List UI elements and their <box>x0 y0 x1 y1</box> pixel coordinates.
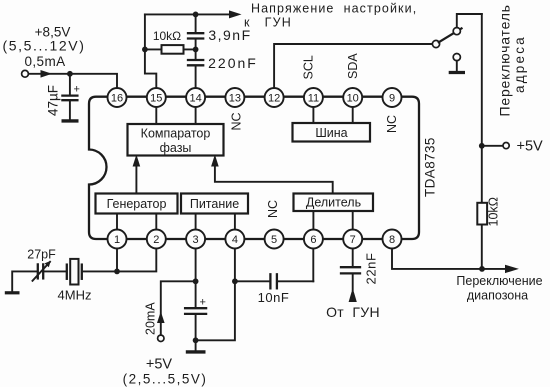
wire divider to comparator with arrow <box>215 163 333 194</box>
svg-text:3,9nF: 3,9nF <box>208 27 251 43</box>
switch S1 address <box>432 28 461 61</box>
svg-text:Делитель: Делитель <box>306 196 361 210</box>
pin 12 <box>265 88 284 107</box>
wire pin1 down <box>116 249 118 271</box>
svg-text:+: + <box>200 297 206 309</box>
wire pin4 down to ground junction <box>196 249 235 340</box>
pin 4 <box>225 230 244 249</box>
resistor R2 10kΩ <box>477 197 500 227</box>
svg-text:2: 2 <box>153 234 159 246</box>
node ground junction <box>193 337 199 343</box>
svg-text:8: 8 <box>389 234 395 246</box>
block comparator (Компаратор фазы) <box>128 124 224 156</box>
svg-text:12: 12 <box>268 93 280 105</box>
svg-text:7: 7 <box>350 234 356 246</box>
node top junction <box>193 12 199 18</box>
pin 2 <box>147 230 166 249</box>
svg-text:4MHz: 4MHz <box>58 288 92 303</box>
wire power to pin3 <box>195 214 197 231</box>
wire generator to pin2 <box>155 214 157 231</box>
svg-text:SDA: SDA <box>346 53 360 79</box>
svg-text:47µF: 47µF <box>46 85 61 116</box>
svg-text:диапозона: диапозона <box>467 289 528 303</box>
capacitor C5 electrolytic <box>185 297 206 341</box>
terminal +8.5V input <box>22 70 29 77</box>
ground (supply) <box>195 340 197 350</box>
svg-text:5: 5 <box>271 234 277 246</box>
svg-text:+: + <box>74 84 80 96</box>
wire pin10 to bus <box>352 106 354 123</box>
node pin4 junction <box>232 278 238 284</box>
pin 6 <box>304 230 323 249</box>
svg-text:Шина: Шина <box>315 126 347 140</box>
svg-text:фазы: фазы <box>160 141 192 155</box>
pin 16 <box>108 88 127 107</box>
arrow to VCO <box>229 10 242 18</box>
block generator (Генератор) <box>96 194 178 214</box>
svg-text:10nF: 10nF <box>258 290 290 305</box>
pin 7 <box>343 230 362 249</box>
svg-text:0,5mA: 0,5mA <box>24 54 65 69</box>
svg-text:4: 4 <box>232 234 238 246</box>
svg-text:10: 10 <box>347 93 359 105</box>
capacitor C6 10nF <box>235 274 313 305</box>
svg-text:Напряжение настройки,: Напряжение настройки, <box>251 2 417 16</box>
wire tuning output <box>145 13 230 15</box>
svg-text:20mA: 20mA <box>144 302 158 335</box>
pin 8 <box>383 230 402 249</box>
svg-text:NC: NC <box>266 200 280 218</box>
crystal X1 4MHz <box>58 259 92 303</box>
wire divider to pin6 <box>312 211 314 230</box>
svg-text:9: 9 <box>389 93 395 105</box>
svg-text:15: 15 <box>150 93 162 105</box>
wire power to pin4 <box>234 214 236 231</box>
ground (47µF) <box>62 119 79 122</box>
wire jog to pin 15 <box>145 49 156 88</box>
wire switch lower contact to ground <box>456 61 458 72</box>
arrow current 20mA <box>157 312 165 324</box>
wire crystal to pins 1,2 <box>82 249 156 271</box>
pin 15 <box>147 88 166 107</box>
svg-text:+5V: +5V <box>146 357 173 373</box>
ground (switch) <box>449 71 465 74</box>
svg-text:Генератор: Генератор <box>107 197 167 211</box>
svg-text:Питание: Питание <box>190 197 239 211</box>
wire +8.5V feed to pin 16 <box>29 74 118 88</box>
wire pin8 to band switching <box>392 249 506 269</box>
svg-text:27pF: 27pF <box>27 248 56 262</box>
capacitor C3 220nF <box>188 55 258 88</box>
pin 5 <box>265 230 284 249</box>
svg-text:6: 6 <box>310 234 316 246</box>
wire pin15 to comparator <box>155 106 157 124</box>
svg-text:+5V: +5V <box>517 139 544 155</box>
pin 1 <box>108 230 127 249</box>
capacitor C1 47µF <box>46 74 80 120</box>
wire 20mA branch <box>161 281 196 335</box>
wire trimmer to crystal <box>45 270 67 272</box>
resistor R1 10kΩ <box>145 29 196 54</box>
wire generator to pin1 <box>116 214 118 231</box>
svg-text:22nF: 22nF <box>364 252 379 284</box>
node supply junction <box>67 71 73 77</box>
capacitor C7 22nF <box>341 249 379 290</box>
terminal +5V supply <box>158 335 164 341</box>
arrow band switching <box>505 265 519 273</box>
pin 11 <box>304 88 323 107</box>
svg-text:SCL: SCL <box>302 55 316 79</box>
svg-text:14: 14 <box>189 93 201 105</box>
svg-text:Переключатель: Переключатель <box>497 4 513 116</box>
svg-text:3: 3 <box>193 234 199 246</box>
top tuning node: left vertical wire <box>144 14 146 49</box>
trimmer capacitor C4 27pF <box>27 248 56 281</box>
wire pin3 down <box>195 249 197 308</box>
wire pin14 to comparator <box>195 106 197 124</box>
pin 10 <box>343 88 362 107</box>
pin 14 <box>186 88 205 107</box>
arrow current 0.5mA <box>41 70 53 78</box>
svg-text:16: 16 <box>111 93 123 105</box>
svg-text:Переключение: Переключение <box>456 274 542 288</box>
svg-text:Компаратор: Компаратор <box>141 127 211 141</box>
pin 3 <box>186 230 205 249</box>
svg-text:1: 1 <box>114 234 120 246</box>
node resistor right <box>193 47 199 53</box>
block divider (Делитель) <box>294 194 374 212</box>
wire pin11 to bus <box>312 106 314 123</box>
wire generator to comparator with arrow <box>135 163 137 194</box>
ground (crystal branch) <box>5 291 20 294</box>
node +5V tap <box>479 143 485 149</box>
svg-text:От ГУН: От ГУН <box>326 304 380 320</box>
node crystal junction <box>114 269 120 275</box>
capacitor C2 3,9nF <box>188 14 252 59</box>
IC U1 TDA8735 body <box>89 97 419 239</box>
svg-text:NC: NC <box>230 112 244 130</box>
svg-text:220nF: 220nF <box>208 55 258 71</box>
pin 9 <box>383 88 402 107</box>
block power (Питание) <box>181 194 248 214</box>
wire switch to right rail <box>457 14 482 28</box>
block bus (Шина) <box>293 123 371 142</box>
wire divider to pin7 <box>352 211 354 230</box>
svg-text:10kΩ: 10kΩ <box>487 197 501 227</box>
terminal +5V <box>503 143 509 149</box>
wire +5V tap <box>482 145 503 147</box>
right rail wire <box>481 14 483 269</box>
node pin3 upper junction <box>193 278 199 284</box>
svg-text:(5,5...12V): (5,5...12V) <box>3 38 86 54</box>
svg-text:(2,5...5,5V): (2,5...5,5V) <box>123 372 208 387</box>
node resistor left <box>142 47 148 53</box>
svg-text:NC: NC <box>385 115 399 133</box>
svg-text:11: 11 <box>308 93 319 105</box>
svg-text:TDA8735: TDA8735 <box>423 137 438 197</box>
wire 10nF to pin6 <box>312 249 314 281</box>
svg-text:10kΩ: 10kΩ <box>153 29 181 43</box>
svg-text:адреса: адреса <box>512 35 527 93</box>
pin 13 <box>225 88 244 107</box>
wire ground to trimmer <box>12 271 36 292</box>
arrow from VCO <box>349 288 357 302</box>
node band-switch junction <box>479 266 485 272</box>
svg-text:13: 13 <box>229 93 241 105</box>
wire pin12 to address switch <box>274 44 432 88</box>
